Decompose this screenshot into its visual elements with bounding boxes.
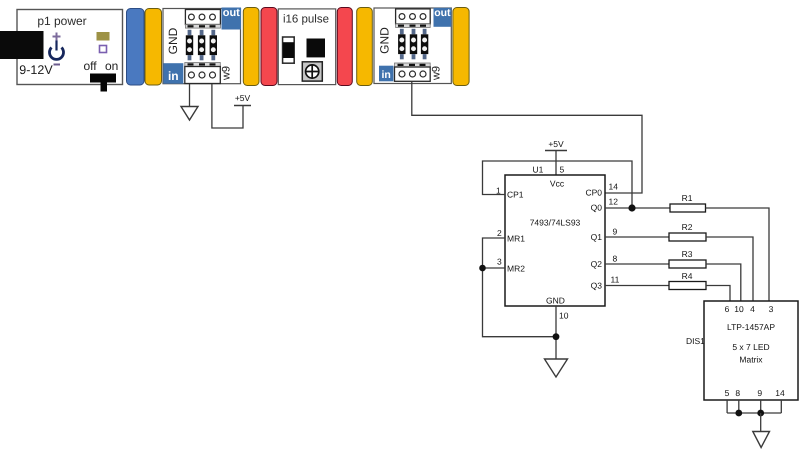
dc power jack — [0, 31, 44, 59]
svg-text:MR1: MR1 — [507, 234, 525, 244]
svg-text:out: out — [223, 7, 240, 19]
svg-text:5 x 7 LED: 5 x 7 LED — [732, 342, 769, 352]
svg-text:GND: GND — [166, 27, 180, 54]
wire R3 to pin10 — [706, 264, 741, 301]
svg-text:+5V: +5V — [548, 139, 564, 149]
svg-text:9-12V: 9-12V — [19, 63, 53, 77]
resistor R3 — [669, 249, 706, 268]
svg-text:Q3: Q3 — [591, 281, 603, 291]
svg-text:12: 12 — [609, 197, 619, 207]
svg-text:R4: R4 — [682, 271, 693, 281]
svg-text:R3: R3 — [682, 249, 693, 259]
svg-text:4: 4 — [750, 304, 755, 314]
svg-text:+5V: +5V — [235, 93, 251, 103]
ic chip component — [307, 39, 326, 58]
svg-text:off: off — [84, 59, 98, 73]
resistor R4 — [669, 271, 706, 290]
svg-text:3: 3 — [769, 304, 774, 314]
wire matrix pin14 stub — [780, 400, 782, 413]
wire ground bus — [727, 412, 781, 414]
svg-text:GND: GND — [378, 27, 392, 54]
wire Q1 to R2 — [605, 236, 669, 238]
ic U1 7493/74LS93 — [505, 175, 605, 306]
bitsnap connector blue — [127, 9, 145, 86]
svg-text:Vcc: Vcc — [550, 179, 565, 189]
svg-text:CP0: CP0 — [585, 188, 602, 198]
bitsnap connector yellow — [357, 8, 373, 86]
wire R4 to pin6 — [706, 286, 730, 302]
svg-text:LTP-1457AP: LTP-1457AP — [727, 322, 775, 332]
svg-text:Q2: Q2 — [591, 259, 603, 269]
svg-text:5: 5 — [560, 165, 565, 175]
label out — [434, 7, 452, 27]
wire R2 to pin4 — [706, 237, 753, 301]
label in — [379, 66, 393, 82]
svg-text:Matrix: Matrix — [739, 355, 763, 365]
svg-text:14: 14 — [609, 182, 619, 192]
resistor R2 — [669, 222, 706, 241]
display DIS1 LTP-1457AP — [704, 301, 798, 400]
wire matrix pin8 stub — [738, 400, 740, 413]
svg-text:w9: w9 — [221, 66, 233, 81]
power +5V node U1 — [545, 139, 567, 151]
wire matrix pin9 stub — [760, 400, 762, 413]
label out — [222, 7, 242, 30]
svg-text:9: 9 — [757, 388, 762, 398]
svg-text:U1: U1 — [533, 165, 544, 175]
svg-text:Q1: Q1 — [591, 232, 603, 242]
terminal block top — [185, 10, 220, 29]
label in — [163, 63, 183, 83]
wire Q3 to R4 — [605, 285, 669, 287]
svg-text:w9: w9 — [431, 66, 443, 81]
svg-text:8: 8 — [613, 254, 618, 264]
svg-text:Q0: Q0 — [591, 203, 603, 213]
svg-text:7493/74LS93: 7493/74LS93 — [530, 218, 581, 228]
wire CP1 feedback from Q0 — [483, 161, 633, 208]
svg-text:14: 14 — [775, 388, 785, 398]
bitsnap connector red — [337, 8, 352, 86]
bitsnap connector yellow — [453, 8, 469, 86]
svg-text:in: in — [168, 69, 179, 83]
terminal block bottom — [185, 63, 221, 84]
svg-text:R1: R1 — [682, 193, 693, 203]
junction GND — [553, 333, 560, 340]
svg-text:GND: GND — [546, 296, 565, 306]
svg-text:5: 5 — [725, 388, 730, 398]
power +5V node — [234, 93, 251, 106]
module P1 littleBits power — [17, 10, 123, 85]
svg-text:out: out — [434, 7, 451, 19]
wire Q0 to R1 — [605, 207, 670, 209]
wire GND pin10 — [555, 306, 557, 359]
resistor chip component — [100, 46, 107, 53]
capacitor component — [282, 37, 294, 64]
wire matrix pin5 stub — [726, 400, 728, 413]
wire Vcc pin5 — [555, 151, 557, 176]
module W2 littleBits wire w9 — [374, 8, 451, 84]
bitsnap connector yellow — [243, 8, 259, 86]
svg-text:R2: R2 — [682, 222, 693, 232]
svg-text:9: 9 — [613, 227, 618, 237]
wire to ground — [760, 413, 762, 432]
svg-text:1: 1 — [496, 186, 501, 196]
module I16 littleBits pulse — [278, 9, 335, 85]
led component — [97, 32, 110, 41]
power symbol — [50, 33, 64, 60]
svg-text:3: 3 — [497, 257, 502, 267]
wire W2 to +5V — [212, 84, 243, 128]
svg-text:CP1: CP1 — [507, 190, 524, 200]
svg-text:MR2: MR2 — [507, 264, 525, 274]
junction MR2 — [479, 265, 486, 272]
resistor R1 — [670, 193, 706, 212]
svg-text:6: 6 — [725, 304, 730, 314]
svg-text:11: 11 — [611, 275, 620, 285]
module W1 littleBits wire w9 — [163, 9, 241, 84]
svg-text:2: 2 — [497, 228, 502, 238]
jumper pins — [186, 30, 217, 61]
svg-text:in: in — [382, 69, 391, 81]
ground symbol DIS1 — [753, 432, 770, 448]
svg-text:p1 power: p1 power — [37, 14, 86, 28]
svg-text:10: 10 — [559, 311, 569, 321]
trimpot component — [302, 62, 322, 81]
svg-text:DIS1: DIS1 — [686, 336, 705, 346]
power switch — [90, 74, 116, 92]
junction pin8 — [735, 410, 742, 417]
svg-text:on: on — [105, 59, 118, 73]
bitsnap connector yellow — [145, 9, 162, 86]
wire Q2 to R3 — [605, 263, 669, 265]
ground symbol U1 — [545, 359, 568, 377]
wire R1 to pin3 — [706, 208, 770, 301]
junction Q0 — [628, 204, 635, 211]
junction pin9 — [757, 410, 764, 417]
wire MR2 stub — [483, 267, 506, 269]
terminal block bottom — [395, 63, 431, 81]
svg-text:10: 10 — [734, 304, 744, 314]
ground symbol — [181, 107, 198, 121]
wire W3 pulse out to CP0 — [412, 82, 642, 194]
terminal block top — [396, 9, 431, 28]
wire MR1 MR2 to ground — [483, 238, 557, 337]
wire W1 ground — [189, 84, 191, 106]
bitsnap connector red — [261, 8, 277, 86]
svg-text:8: 8 — [735, 388, 740, 398]
jumper pins — [398, 29, 428, 60]
svg-text:i16 pulse: i16 pulse — [283, 14, 329, 26]
